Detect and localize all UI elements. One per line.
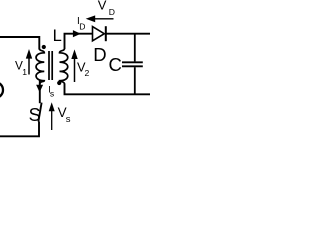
- primary polarity dot: [42, 45, 46, 49]
- svg-text:s: s: [50, 89, 54, 99]
- wire diode cathode to right edge: [106, 33, 150, 35]
- svg-text:1: 1: [22, 67, 27, 77]
- wire bottom-right secondary return: [65, 84, 151, 95]
- capacitor C plates: [122, 62, 143, 66]
- V_s arrowhead: [49, 102, 55, 111]
- V_2 arrow stem: [74, 58, 76, 83]
- wire primary-bottom to switch: [39, 80, 41, 104]
- V_D arrow stem: [94, 18, 114, 20]
- transformer secondary winding: [60, 49, 68, 85]
- source V_in arc (cut at left edge): [0, 82, 3, 98]
- svg-text:V: V: [98, 0, 107, 12]
- svg-text:D: D: [79, 21, 85, 31]
- I_D current arrowhead on wire: [73, 30, 81, 37]
- V_1 arrow stem: [28, 58, 30, 75]
- transformer core: [49, 51, 52, 80]
- switch S blade: [38, 103, 41, 122]
- V_2 arrowhead: [71, 49, 77, 59]
- svg-text:2: 2: [85, 68, 90, 78]
- wire bottom-left from source to switch: [0, 122, 39, 137]
- svg-text:D: D: [93, 44, 106, 65]
- diode D triangle: [93, 27, 105, 41]
- svg-text:s: s: [66, 114, 71, 125]
- secondary polarity dot: [57, 81, 61, 85]
- wire top-left from source to primary: [0, 37, 39, 50]
- svg-text:D: D: [109, 7, 115, 17]
- V_1 arrowhead: [26, 49, 32, 59]
- capacitor C top lead: [134, 34, 136, 62]
- svg-text:C: C: [109, 54, 122, 75]
- wire secondary-top to diode: [65, 34, 93, 49]
- capacitor C bottom lead: [134, 67, 136, 94]
- svg-text:L: L: [53, 27, 62, 45]
- V_D arrowhead: [86, 15, 96, 22]
- diode cathode bar: [105, 26, 107, 41]
- transformer primary winding: [36, 49, 44, 85]
- I_s current arrowhead on wire: [36, 85, 43, 93]
- V_s arrow stem: [51, 110, 53, 130]
- svg-text:S: S: [29, 105, 41, 125]
